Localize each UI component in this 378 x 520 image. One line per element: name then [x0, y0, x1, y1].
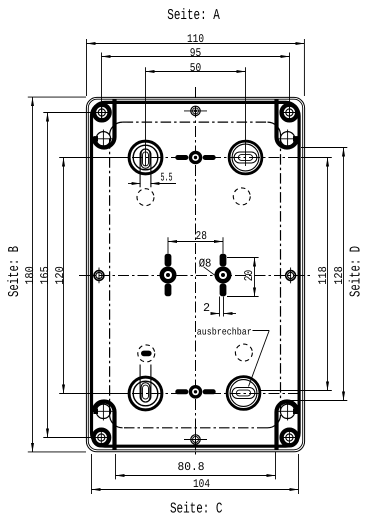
- svg-text:180: 180: [23, 266, 37, 285]
- dim 28 ext left: [167, 237, 169, 253]
- gland circle top-right: [229, 141, 262, 174]
- svg-text:Seite: C: Seite: C: [170, 501, 223, 518]
- dim 80.8 line: [116, 475, 276, 477]
- dim 118 ext bottom: [260, 390, 332, 392]
- lid screw bottom-right small: [279, 402, 298, 421]
- dim 80.8 ext left: [115, 454, 117, 479]
- svg-text:Seite: B: Seite: B: [6, 246, 23, 297]
- dim 28 ext right: [222, 237, 224, 253]
- corner boss top-left outline: [94, 100, 115, 148]
- centerline vertical: [195, 87, 197, 455]
- dim 128 ext bottom: [289, 400, 347, 402]
- lid screw top-right small: [279, 130, 298, 149]
- corner boss bottom-right outline: [277, 402, 298, 450]
- dim 118 ext top: [301, 157, 332, 159]
- dim 110 line: [87, 43, 305, 45]
- dim 120 ext bottom: [59, 393, 129, 395]
- lid screw top-left small: [93, 130, 112, 149]
- corner screw bottom-right: [281, 429, 299, 447]
- corner boss top-right outline: [277, 100, 298, 148]
- dim 104 ext left: [91, 454, 93, 494]
- svg-text:118: 118: [316, 266, 330, 285]
- svg-text:110: 110: [187, 32, 204, 46]
- dim 165 line: [47, 113, 49, 438]
- box inner wall thick: [92, 102, 300, 446]
- lid screw top-center: [184, 106, 207, 115]
- dim 128 line: [343, 148, 345, 401]
- lid dash-dot rect: corner arcs: [110, 122, 123, 135]
- svg-text:Ø8: Ø8: [199, 256, 212, 270]
- centerline top row: [93, 157, 299, 159]
- dim 2 ext left: [219, 297, 221, 317]
- corner screw bottom-left: [93, 429, 111, 447]
- lid screw bottom-left small: [93, 402, 112, 421]
- dim 2 arrow left: [211, 313, 220, 315]
- dim 95 ext right: [289, 53, 291, 122]
- knockout circle top-left: [137, 189, 154, 206]
- svg-text:2: 2: [203, 301, 210, 315]
- dim 165 ext top: [43, 112, 95, 114]
- dim 120 line: [63, 158, 65, 394]
- dim 20 ext top: [227, 257, 259, 259]
- svg-text:Seite: A: Seite: A: [167, 7, 220, 24]
- dim 5.5 arrow left: [128, 183, 141, 185]
- middle post left (vertical dumbbell): [160, 254, 177, 296]
- dim 110 ext right: [303, 39, 305, 96]
- dim 110 ext left: [86, 39, 88, 96]
- svg-text:120: 120: [53, 266, 67, 285]
- svg-text:128: 128: [332, 266, 346, 285]
- leader diameter 8: [204, 267, 224, 282]
- corner screw top-right: [281, 104, 299, 122]
- dim 104 line: [92, 489, 299, 491]
- dim 20 ext bottom: [227, 296, 259, 298]
- svg-text:50: 50: [190, 61, 201, 75]
- dim 95 line: [102, 56, 290, 58]
- corner screw top-left: [93, 104, 111, 122]
- svg-text:20: 20: [242, 270, 256, 281]
- dim 50 line: [146, 71, 246, 73]
- dim 2 ext right: [223, 297, 225, 317]
- svg-text:5.5: 5.5: [161, 170, 173, 184]
- knockout circle top-right: [233, 188, 250, 205]
- svg-text:95: 95: [190, 46, 201, 60]
- dim 5.5 arrow right: [150, 183, 176, 185]
- center post bottom (horizontal dumbbell): [175, 385, 215, 399]
- dim 104 ext right: [298, 454, 300, 494]
- center post top (horizontal dumbbell): [175, 151, 215, 165]
- dim 20 line: [254, 258, 256, 297]
- svg-text:ausbrechbar: ausbrechbar: [197, 326, 252, 337]
- gland circle bottom-left: [129, 365, 162, 410]
- leader ausbrechbar diagonal: [249, 331, 270, 387]
- dim 95 ext left: [101, 53, 103, 122]
- lid dash-dot rect: edges: [123, 121, 268, 123]
- svg-text:Seite: D: Seite: D: [348, 246, 365, 297]
- knockout pill bottom-left: [141, 351, 152, 357]
- dim 120 ext top: [59, 157, 130, 159]
- dim 180 line: [32, 97, 34, 452]
- svg-text:104: 104: [193, 477, 210, 491]
- box outer edge second line: [88, 99, 302, 450]
- dim 165 ext bottom: [43, 437, 95, 439]
- dim 180 ext top: [28, 96, 86, 98]
- svg-text:165: 165: [38, 266, 52, 285]
- dim 50 ext left: [145, 67, 147, 166]
- leader ausbrechbar horizontal: [253, 330, 270, 332]
- centerline middle row: [79, 275, 311, 277]
- dim 180 ext bottom: [28, 451, 86, 453]
- knockout circle bottom-right: [235, 344, 252, 361]
- dim 118 line: [327, 158, 329, 391]
- gland circle bottom-right: [227, 377, 260, 410]
- knockout circle bottom-left: [138, 345, 155, 362]
- dim 2 arrow right: [224, 313, 237, 315]
- side screw left: [94, 268, 104, 284]
- svg-text:80.8: 80.8: [178, 460, 205, 474]
- corner boss bottom-left outline: [94, 402, 115, 450]
- dim 28 line: [168, 241, 223, 243]
- gland circle top-left: [129, 141, 162, 187]
- dim 128 ext top: [301, 147, 347, 149]
- svg-text:28: 28: [196, 229, 207, 243]
- dim 50 ext right: [245, 67, 247, 166]
- middle post right (vertical dumbbell): [215, 254, 232, 296]
- centerline bottom row: [93, 393, 299, 395]
- side screw right: [286, 268, 296, 284]
- lid screw bottom-center: [184, 429, 207, 451]
- box outer edge: [86, 97, 304, 451]
- dim 80.8 ext right: [275, 452, 277, 479]
